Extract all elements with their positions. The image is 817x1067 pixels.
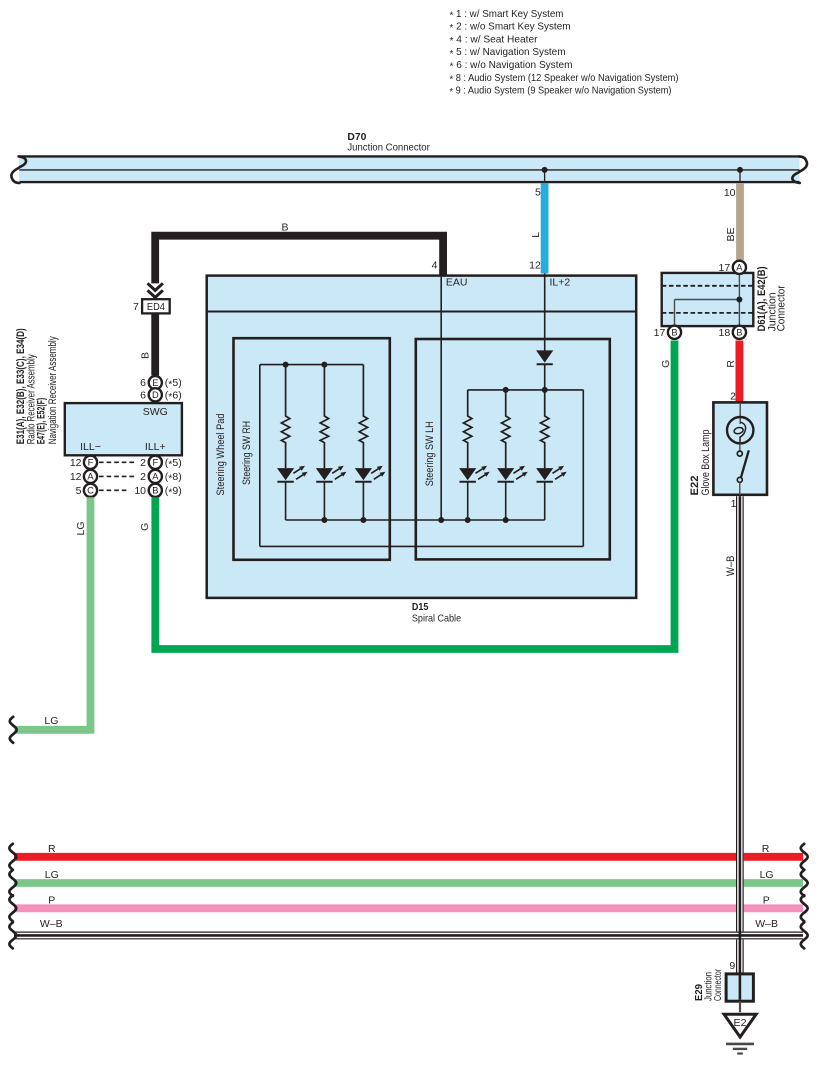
ILL+ pins C-B row xyxy=(76,484,182,499)
lamp to switch wire xyxy=(739,443,741,451)
svg-text:* 6 : w/o Navigation System: * 6 : w/o Navigation System xyxy=(450,59,573,73)
wire W-B from E22 pin 1 to E29 xyxy=(736,496,744,975)
svg-text:LG: LG xyxy=(45,869,59,881)
svg-text:G: G xyxy=(139,523,151,531)
wire LG from pin C xyxy=(15,497,91,730)
svg-text:Spiral Cable: Spiral Cable xyxy=(412,612,461,624)
break squiggle LG xyxy=(10,717,17,743)
svg-text:Steering Wheel Pad: Steering Wheel Pad xyxy=(215,414,227,496)
switch to pin 1 wire xyxy=(739,482,741,494)
svg-text:(*9): (*9) xyxy=(165,485,182,499)
svg-text:2: 2 xyxy=(140,457,146,469)
pin 6 E xyxy=(140,376,182,391)
svg-text:12: 12 xyxy=(70,471,82,483)
svg-text:LG: LG xyxy=(44,715,58,727)
junction dots xyxy=(283,362,548,523)
svg-text:2: 2 xyxy=(730,391,736,403)
D15 header line xyxy=(207,311,637,313)
svg-text:SWG: SWG xyxy=(143,406,168,418)
RH left return wire xyxy=(259,365,261,547)
D15 label xyxy=(412,601,461,625)
lamp bulb circle xyxy=(727,417,753,443)
svg-text:E2: E2 xyxy=(734,1017,747,1029)
svg-text:6: 6 xyxy=(140,389,146,401)
wire R (red) xyxy=(736,341,744,404)
svg-text:12: 12 xyxy=(529,259,541,271)
ground triangle E2 xyxy=(724,1014,756,1037)
resistor + LED branch LH3 xyxy=(536,390,567,520)
steering SW LH box xyxy=(416,339,610,559)
svg-text:Steering SW LH: Steering SW LH xyxy=(424,421,436,486)
svg-text:* 1 : w/ Smart Key System: * 1 : w/ Smart Key System xyxy=(450,8,564,22)
pin 18 B xyxy=(719,326,746,339)
wire blue L xyxy=(541,183,549,274)
junction connector D70 label xyxy=(347,131,430,153)
svg-text:ILL−: ILL− xyxy=(80,441,101,453)
svg-text:2: 2 xyxy=(140,471,146,483)
svg-text:12: 12 xyxy=(70,457,82,469)
svg-text:W–B: W–B xyxy=(755,918,778,930)
svg-text:9: 9 xyxy=(729,960,735,972)
svg-text:F: F xyxy=(88,458,94,468)
E29 labels xyxy=(694,969,724,1001)
bus wire LG (light green) xyxy=(9,869,807,896)
svg-text:W–B: W–B xyxy=(725,556,737,577)
svg-text:EAU: EAU xyxy=(446,277,468,289)
lamp filament xyxy=(740,422,746,443)
svg-text:Connector: Connector xyxy=(776,285,788,331)
switch blade xyxy=(741,450,749,478)
svg-text:ILL+: ILL+ xyxy=(145,441,166,453)
bus wire R (red) xyxy=(9,843,807,870)
svg-text:D: D xyxy=(152,390,159,400)
resistor + LED branch LH1 xyxy=(459,390,490,520)
svg-text:B: B xyxy=(152,486,158,496)
bus wire P (pink) xyxy=(9,895,807,922)
svg-text:D15: D15 xyxy=(412,601,429,613)
svg-text:ED4: ED4 xyxy=(147,302,165,313)
bus D70 xyxy=(11,156,807,183)
svg-text:* 4 : w/ Seat Heater: * 4 : w/ Seat Heater xyxy=(450,33,538,47)
wire G from pin B to D61 pin 17B xyxy=(155,341,674,650)
svg-text:17: 17 xyxy=(719,262,731,274)
svg-text:Glove Box Lamp: Glove Box Lamp xyxy=(700,430,712,496)
wire B (black) from ED4 to radio pin E xyxy=(151,313,159,375)
wire B (black) from D15 pin 4 to ED4 xyxy=(155,236,443,284)
switch contact top xyxy=(737,451,742,456)
RH LED top rail xyxy=(260,364,364,366)
W-B black stripe xyxy=(739,496,742,1000)
svg-text:(*5): (*5) xyxy=(165,457,182,471)
ground symbol xyxy=(726,1044,754,1054)
svg-text:* 8 : Audio System (12 Speaker: * 8 : Audio System (12 Speaker w/o Navig… xyxy=(450,72,679,86)
svg-text:BE: BE xyxy=(725,227,737,241)
svg-text:Junction Connector: Junction Connector xyxy=(347,142,430,154)
E22 labels xyxy=(689,430,712,496)
E22 glove box lamp box xyxy=(713,402,767,494)
wire E29 to ground xyxy=(739,1001,741,1012)
svg-text:Connector: Connector xyxy=(713,969,724,1001)
switch contact bottom xyxy=(737,477,742,482)
LED cathode rail xyxy=(286,519,545,521)
svg-text:E47(E), E52(F): E47(E), E52(F) xyxy=(36,398,48,445)
svg-text:A: A xyxy=(87,472,94,482)
svg-text:5: 5 xyxy=(535,186,541,198)
svg-text:L: L xyxy=(530,232,542,238)
svg-text:Navigation Receiver Assembly: Navigation Receiver Assembly xyxy=(47,336,59,444)
D15 spiral cable box xyxy=(207,276,637,598)
svg-text:B: B xyxy=(281,222,288,234)
SWG block xyxy=(65,403,182,455)
pin 17 A xyxy=(719,261,746,274)
bottom return wire to LH xyxy=(260,545,584,547)
svg-text:LG: LG xyxy=(75,521,87,535)
svg-text:1: 1 xyxy=(731,498,737,510)
svg-text:E: E xyxy=(152,378,158,388)
svg-text:A: A xyxy=(736,263,743,273)
svg-text:Steering SW RH: Steering SW RH xyxy=(241,421,253,485)
svg-text:6: 6 xyxy=(140,377,146,389)
connector arrows into ED4 xyxy=(148,283,163,297)
IL+2 conductor xyxy=(544,274,546,351)
pin 17 B xyxy=(654,326,681,339)
svg-text:F: F xyxy=(152,458,158,468)
svg-text:R: R xyxy=(725,360,737,368)
ILL pins A-A row xyxy=(70,470,182,485)
LH LED top rail xyxy=(468,389,584,391)
D61 labels xyxy=(756,266,787,331)
steering SW RH box xyxy=(234,338,390,560)
pin 6 D xyxy=(140,388,182,403)
svg-text:17: 17 xyxy=(654,327,666,339)
svg-text:* 9 : Audio System (9 Speaker: * 9 : Audio System (9 Speaker w/o Naviga… xyxy=(450,85,672,99)
ILL- pins F-F row xyxy=(70,456,182,471)
svg-text:W–B: W–B xyxy=(40,918,63,930)
svg-text:(*8): (*8) xyxy=(165,471,182,485)
bus wire W-B (white/black) xyxy=(9,918,807,948)
node: D70 pin 10 junction dot xyxy=(737,167,743,181)
svg-text:(*6): (*6) xyxy=(165,389,182,403)
svg-text:* 2 : w/o Smart Key System: * 2 : w/o Smart Key System xyxy=(450,21,571,35)
svg-text:18: 18 xyxy=(719,327,731,339)
D61 internal junction dot xyxy=(736,297,742,303)
node: D70 pin 5 junction dot xyxy=(542,167,548,181)
svg-text:10: 10 xyxy=(134,485,146,497)
svg-text:R: R xyxy=(762,843,770,855)
resistor + LED branch RH3 xyxy=(355,365,386,520)
svg-text:5: 5 xyxy=(76,485,82,497)
resistor + LED branch LH2 xyxy=(497,390,528,520)
E22 internal wire to lamp xyxy=(739,403,741,424)
diode D on IL+2 xyxy=(536,350,553,364)
svg-text:LG: LG xyxy=(760,869,774,881)
svg-text:* 5 : w/ Navigation System: * 5 : w/ Navigation System xyxy=(450,46,566,60)
D61(A), E42(B) junction connector box xyxy=(662,273,754,326)
svg-text:10: 10 xyxy=(724,187,736,199)
svg-text:B: B xyxy=(671,328,677,338)
EAU conductor xyxy=(440,277,442,520)
svg-text:B: B xyxy=(140,352,152,359)
resistor + LED branch RH1 xyxy=(277,365,308,520)
svg-text:7: 7 xyxy=(133,301,139,313)
svg-text:P: P xyxy=(763,895,770,907)
D61 dashed separators xyxy=(662,286,754,313)
D61 internal wires xyxy=(675,274,740,326)
connector ED4 xyxy=(142,299,170,313)
LH right return wire xyxy=(582,390,584,547)
legend notes xyxy=(450,8,679,98)
svg-text:C: C xyxy=(87,486,94,496)
svg-text:R: R xyxy=(48,843,56,855)
svg-text:4: 4 xyxy=(432,259,438,271)
wire BE (tan) xyxy=(736,183,744,260)
svg-text:P: P xyxy=(48,895,55,907)
resistor + LED branch RH2 xyxy=(316,365,347,520)
radio/navigation receiver assembly designators xyxy=(15,328,59,444)
svg-text:G: G xyxy=(660,360,672,368)
svg-text:A: A xyxy=(152,472,159,482)
svg-text:B: B xyxy=(736,328,742,338)
svg-text:IL+2: IL+2 xyxy=(550,277,571,289)
E29 junction connector box xyxy=(726,974,753,1001)
